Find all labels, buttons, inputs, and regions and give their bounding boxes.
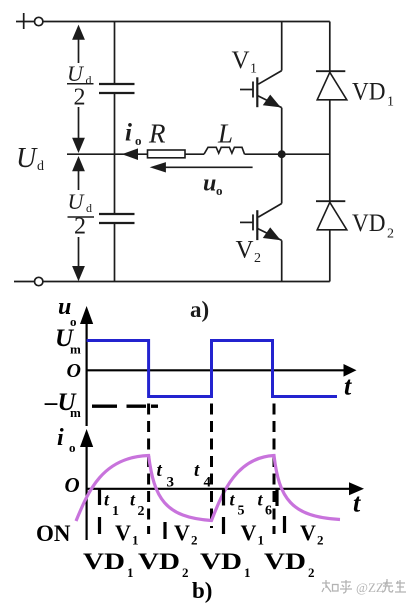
svg-text:1: 1: [250, 62, 257, 77]
svg-text:VD: VD: [83, 549, 125, 574]
svg-text:t: t: [157, 460, 163, 481]
svg-text:L: L: [217, 119, 233, 149]
svg-text:O: O: [67, 360, 81, 382]
svg-text:1: 1: [132, 533, 139, 548]
svg-text:1: 1: [244, 565, 251, 580]
svg-text:VD: VD: [200, 549, 242, 574]
svg-text:V: V: [241, 520, 257, 545]
svg-text:@ZZ: @ZZ: [356, 580, 384, 595]
svg-text:O: O: [65, 473, 80, 497]
svg-text:2: 2: [182, 565, 189, 580]
svg-text:2: 2: [138, 504, 145, 519]
svg-text:d: d: [86, 201, 92, 215]
svg-text:2: 2: [74, 85, 86, 111]
svg-text:U: U: [67, 61, 85, 86]
svg-text:VD: VD: [352, 210, 386, 237]
svg-text:4: 4: [204, 475, 212, 491]
svg-text:2: 2: [387, 227, 394, 242]
svg-text:VD: VD: [264, 549, 306, 574]
svg-text:V: V: [236, 236, 254, 263]
svg-text:2: 2: [308, 565, 315, 580]
svg-text:1: 1: [258, 533, 265, 548]
svg-text:d: d: [37, 159, 44, 174]
svg-text:R: R: [148, 119, 166, 149]
svg-text:m: m: [70, 342, 81, 357]
svg-text:o: o: [69, 440, 76, 455]
svg-text:u: u: [203, 171, 216, 197]
svg-text:U: U: [16, 143, 38, 174]
svg-text:m: m: [70, 405, 81, 420]
svg-text:t: t: [344, 372, 352, 401]
svg-text:U: U: [68, 189, 86, 214]
svg-text:b): b): [192, 578, 212, 603]
svg-text:5: 5: [238, 504, 245, 519]
svg-text:1: 1: [112, 504, 119, 519]
svg-text:i: i: [125, 120, 132, 147]
svg-text:1: 1: [387, 95, 394, 110]
svg-text:V: V: [174, 520, 190, 545]
svg-text:i: i: [57, 425, 64, 451]
svg-text:V: V: [300, 520, 316, 545]
svg-text:d: d: [86, 73, 92, 87]
svg-text:2: 2: [254, 251, 261, 266]
svg-text:V: V: [115, 520, 131, 545]
svg-text:o: o: [135, 133, 142, 148]
svg-text:VD: VD: [138, 549, 180, 574]
svg-text:t: t: [353, 489, 361, 518]
svg-text:1: 1: [127, 565, 134, 580]
svg-text:V: V: [232, 47, 250, 74]
svg-text:VD: VD: [352, 79, 386, 106]
svg-text:2: 2: [317, 533, 324, 548]
svg-text:ON: ON: [36, 521, 71, 546]
svg-text:t: t: [194, 460, 200, 481]
svg-text:2: 2: [74, 214, 86, 240]
svg-text:6: 6: [265, 504, 272, 519]
svg-text:3: 3: [167, 475, 175, 491]
svg-text:a): a): [190, 297, 209, 322]
svg-text:o: o: [216, 183, 223, 198]
svg-text:2: 2: [191, 533, 198, 548]
